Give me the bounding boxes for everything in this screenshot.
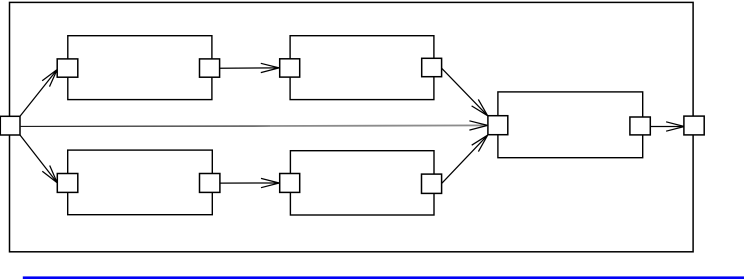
port P5R (B5 right) <box>630 117 650 135</box>
port P3L (B3 left) <box>57 174 78 193</box>
box B4 (bottom-right) <box>290 151 434 215</box>
arrow A2: P0 to P3L <box>20 135 57 183</box>
port P4R (B4 right) <box>422 174 442 193</box>
box B3 (bottom-left) <box>68 150 213 215</box>
arrow A6: long horizontal P0 to P5L <box>20 121 488 130</box>
arrow A5: P2R to P5L (diagonal down) <box>442 68 488 116</box>
box B2 (top-right) <box>290 36 434 100</box>
arrow A1: P0 to P1L <box>20 70 57 117</box>
port P3R (B3 right) <box>200 174 220 193</box>
port P2L (B2 left) <box>280 59 300 77</box>
arrow A8: P5R to P6 <box>650 122 684 131</box>
arrow A3: P1R to P2L <box>220 63 279 72</box>
port P4L (B4 left) <box>280 174 300 193</box>
port P1R (B1 right) <box>200 59 220 77</box>
box B5 (right-center) <box>498 92 643 158</box>
port P5L (B5 left) <box>488 116 508 135</box>
arrow A4: P3R to P4L <box>220 178 279 187</box>
port P1L (B1 left) <box>57 59 78 77</box>
blue divider line (bottom) <box>23 276 744 279</box>
port P2R (B2 right) <box>422 58 442 76</box>
port P0 (outer box left edge) <box>0 116 20 135</box>
arrow A7: P4R to P5L (diagonal up) <box>442 135 488 183</box>
box B1 (top-left) <box>68 36 212 100</box>
port P6 (outer box right edge) <box>684 116 704 135</box>
